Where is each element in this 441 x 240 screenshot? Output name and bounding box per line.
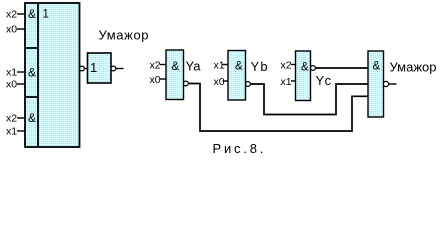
svg-text:x2: x2 (281, 60, 292, 72)
svg-text:&: & (301, 62, 309, 74)
svg-text:x1: x1 (281, 76, 292, 88)
svg-text:x0: x0 (6, 24, 17, 36)
svg-text:&: & (28, 66, 36, 80)
svg-text:x2: x2 (6, 9, 17, 21)
svg-text:Рис.8.: Рис.8. (213, 141, 267, 156)
svg-text:x0: x0 (6, 79, 17, 91)
svg-text:x2: x2 (150, 60, 161, 72)
svg-text:&: & (28, 111, 36, 125)
svg-text:&: & (373, 60, 381, 72)
svg-text:x0: x0 (150, 74, 161, 86)
svg-text:x1: x1 (6, 67, 17, 79)
svg-text:x2: x2 (6, 113, 17, 125)
svg-text:1: 1 (90, 60, 97, 75)
svg-text:&: & (172, 61, 180, 73)
svg-text:Ya: Ya (186, 59, 202, 74)
svg-text:&: & (235, 61, 243, 73)
svg-text:&: & (28, 7, 36, 21)
svg-text:x1: x1 (214, 60, 225, 72)
svg-text:1: 1 (43, 9, 49, 21)
svg-text:x0: x0 (214, 76, 225, 88)
svg-text:Умажор: Умажор (390, 60, 437, 75)
svg-text:Yc: Yc (316, 73, 332, 88)
svg-text:x1: x1 (6, 126, 17, 138)
svg-text:Yb: Yb (251, 59, 269, 74)
svg-text:Умажор: Умажор (99, 28, 150, 43)
